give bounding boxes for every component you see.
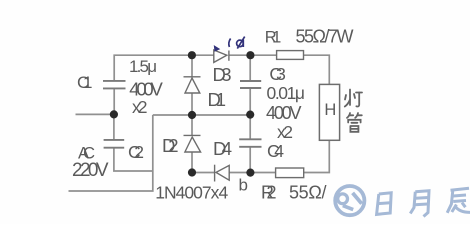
annotation ink bracket: [229, 39, 231, 48]
wire AC bottom terminal up line B: [69, 115, 153, 191]
watermark character 辰: [447, 188, 470, 213]
node b junction dot: [246, 169, 254, 177]
capacitor C3: [240, 81, 261, 88]
node M junction dot: [110, 110, 118, 118]
wire D4 to node b: [229, 172, 250, 174]
wire bridge bottom to D4 bar: [192, 172, 215, 174]
diode D4: [215, 165, 230, 182]
watermark character 月: [410, 191, 429, 217]
wire C3 to capacitor midpoint: [249, 88, 251, 115]
wire node M to C2 top: [113, 114, 115, 139]
wire middle run to bridge and capacitor midpoint: [153, 114, 250, 116]
wire D3 cathode to R1: [229, 54, 277, 56]
wire C4 to node b: [249, 147, 251, 173]
svg-text:1.5μ: 1.5μ: [129, 57, 157, 76]
diode D1: [184, 77, 201, 93]
svg-text:D4: D4: [213, 138, 232, 159]
node a junction dot: [246, 51, 254, 59]
svg-text:C1: C1: [77, 73, 93, 92]
resistor R2: [276, 168, 304, 178]
svg-text:0.01μ: 0.01μ: [267, 83, 306, 103]
annotation node a handwritten: [237, 37, 245, 49]
resistor R1: [277, 51, 304, 60]
svg-text:C3: C3: [269, 64, 286, 84]
diode D3: [214, 50, 229, 62]
watermark character 日: [377, 193, 392, 215]
diode D2: [184, 135, 201, 152]
capacitor C2: [104, 140, 125, 148]
junction dot bridge top: [188, 51, 196, 59]
watermark logo circle: [335, 186, 364, 215]
wire bridge vertical below D2: [191, 152, 193, 173]
wire bridge vertical above D1: [191, 55, 193, 77]
junction dot bridge bottom: [188, 168, 196, 176]
svg-text:55Ω/7W: 55Ω/7W: [296, 27, 354, 47]
svg-text:x2: x2: [277, 122, 293, 142]
capacitor C1: [103, 81, 126, 89]
wire lamp bottom down then left to R2: [304, 140, 330, 172]
svg-text:C2: C2: [128, 142, 144, 162]
wire AC top terminal: [76, 113, 115, 115]
svg-text:400V: 400V: [266, 103, 302, 123]
wire R1 right then down to lamp top: [304, 55, 330, 84]
lamp H outline: [319, 84, 339, 140]
svg-text:220V: 220V: [72, 160, 109, 181]
svg-text:D2: D2: [162, 135, 179, 156]
svg-text:x2: x2: [132, 97, 148, 117]
junction dot bridge middle: [188, 111, 196, 119]
svg-text:R2: R2: [261, 183, 277, 203]
svg-text:D3: D3: [213, 64, 232, 85]
wire capacitor midpoint to C4: [249, 115, 251, 139]
wire node a down to C3: [249, 55, 251, 81]
svg-text:H: H: [324, 101, 336, 119]
svg-text:D1: D1: [208, 89, 227, 110]
capacitor C4: [239, 139, 261, 147]
wire C1 bottom to node M: [113, 88, 115, 114]
svg-text:C4: C4: [267, 141, 284, 161]
svg-text:1N4007x4: 1N4007x4: [155, 183, 228, 203]
svg-text:b: b: [239, 176, 248, 195]
svg-text:R1: R1: [265, 29, 282, 47]
wire top from C1 up and right to D3: [114, 55, 213, 81]
annotation ink mark on D3: [215, 37, 245, 51]
svg-text:55Ω/: 55Ω/: [289, 183, 327, 203]
wire node b to R2: [251, 172, 276, 174]
junction dot capacitor midpoint: [246, 111, 254, 119]
wire C2 bottom then right to line B: [114, 148, 153, 171]
wire bridge vertical D1 to D2: [191, 93, 193, 135]
lamp CJK label: 灯: [345, 90, 362, 132]
lamp CJK label: 管: [347, 113, 362, 132]
